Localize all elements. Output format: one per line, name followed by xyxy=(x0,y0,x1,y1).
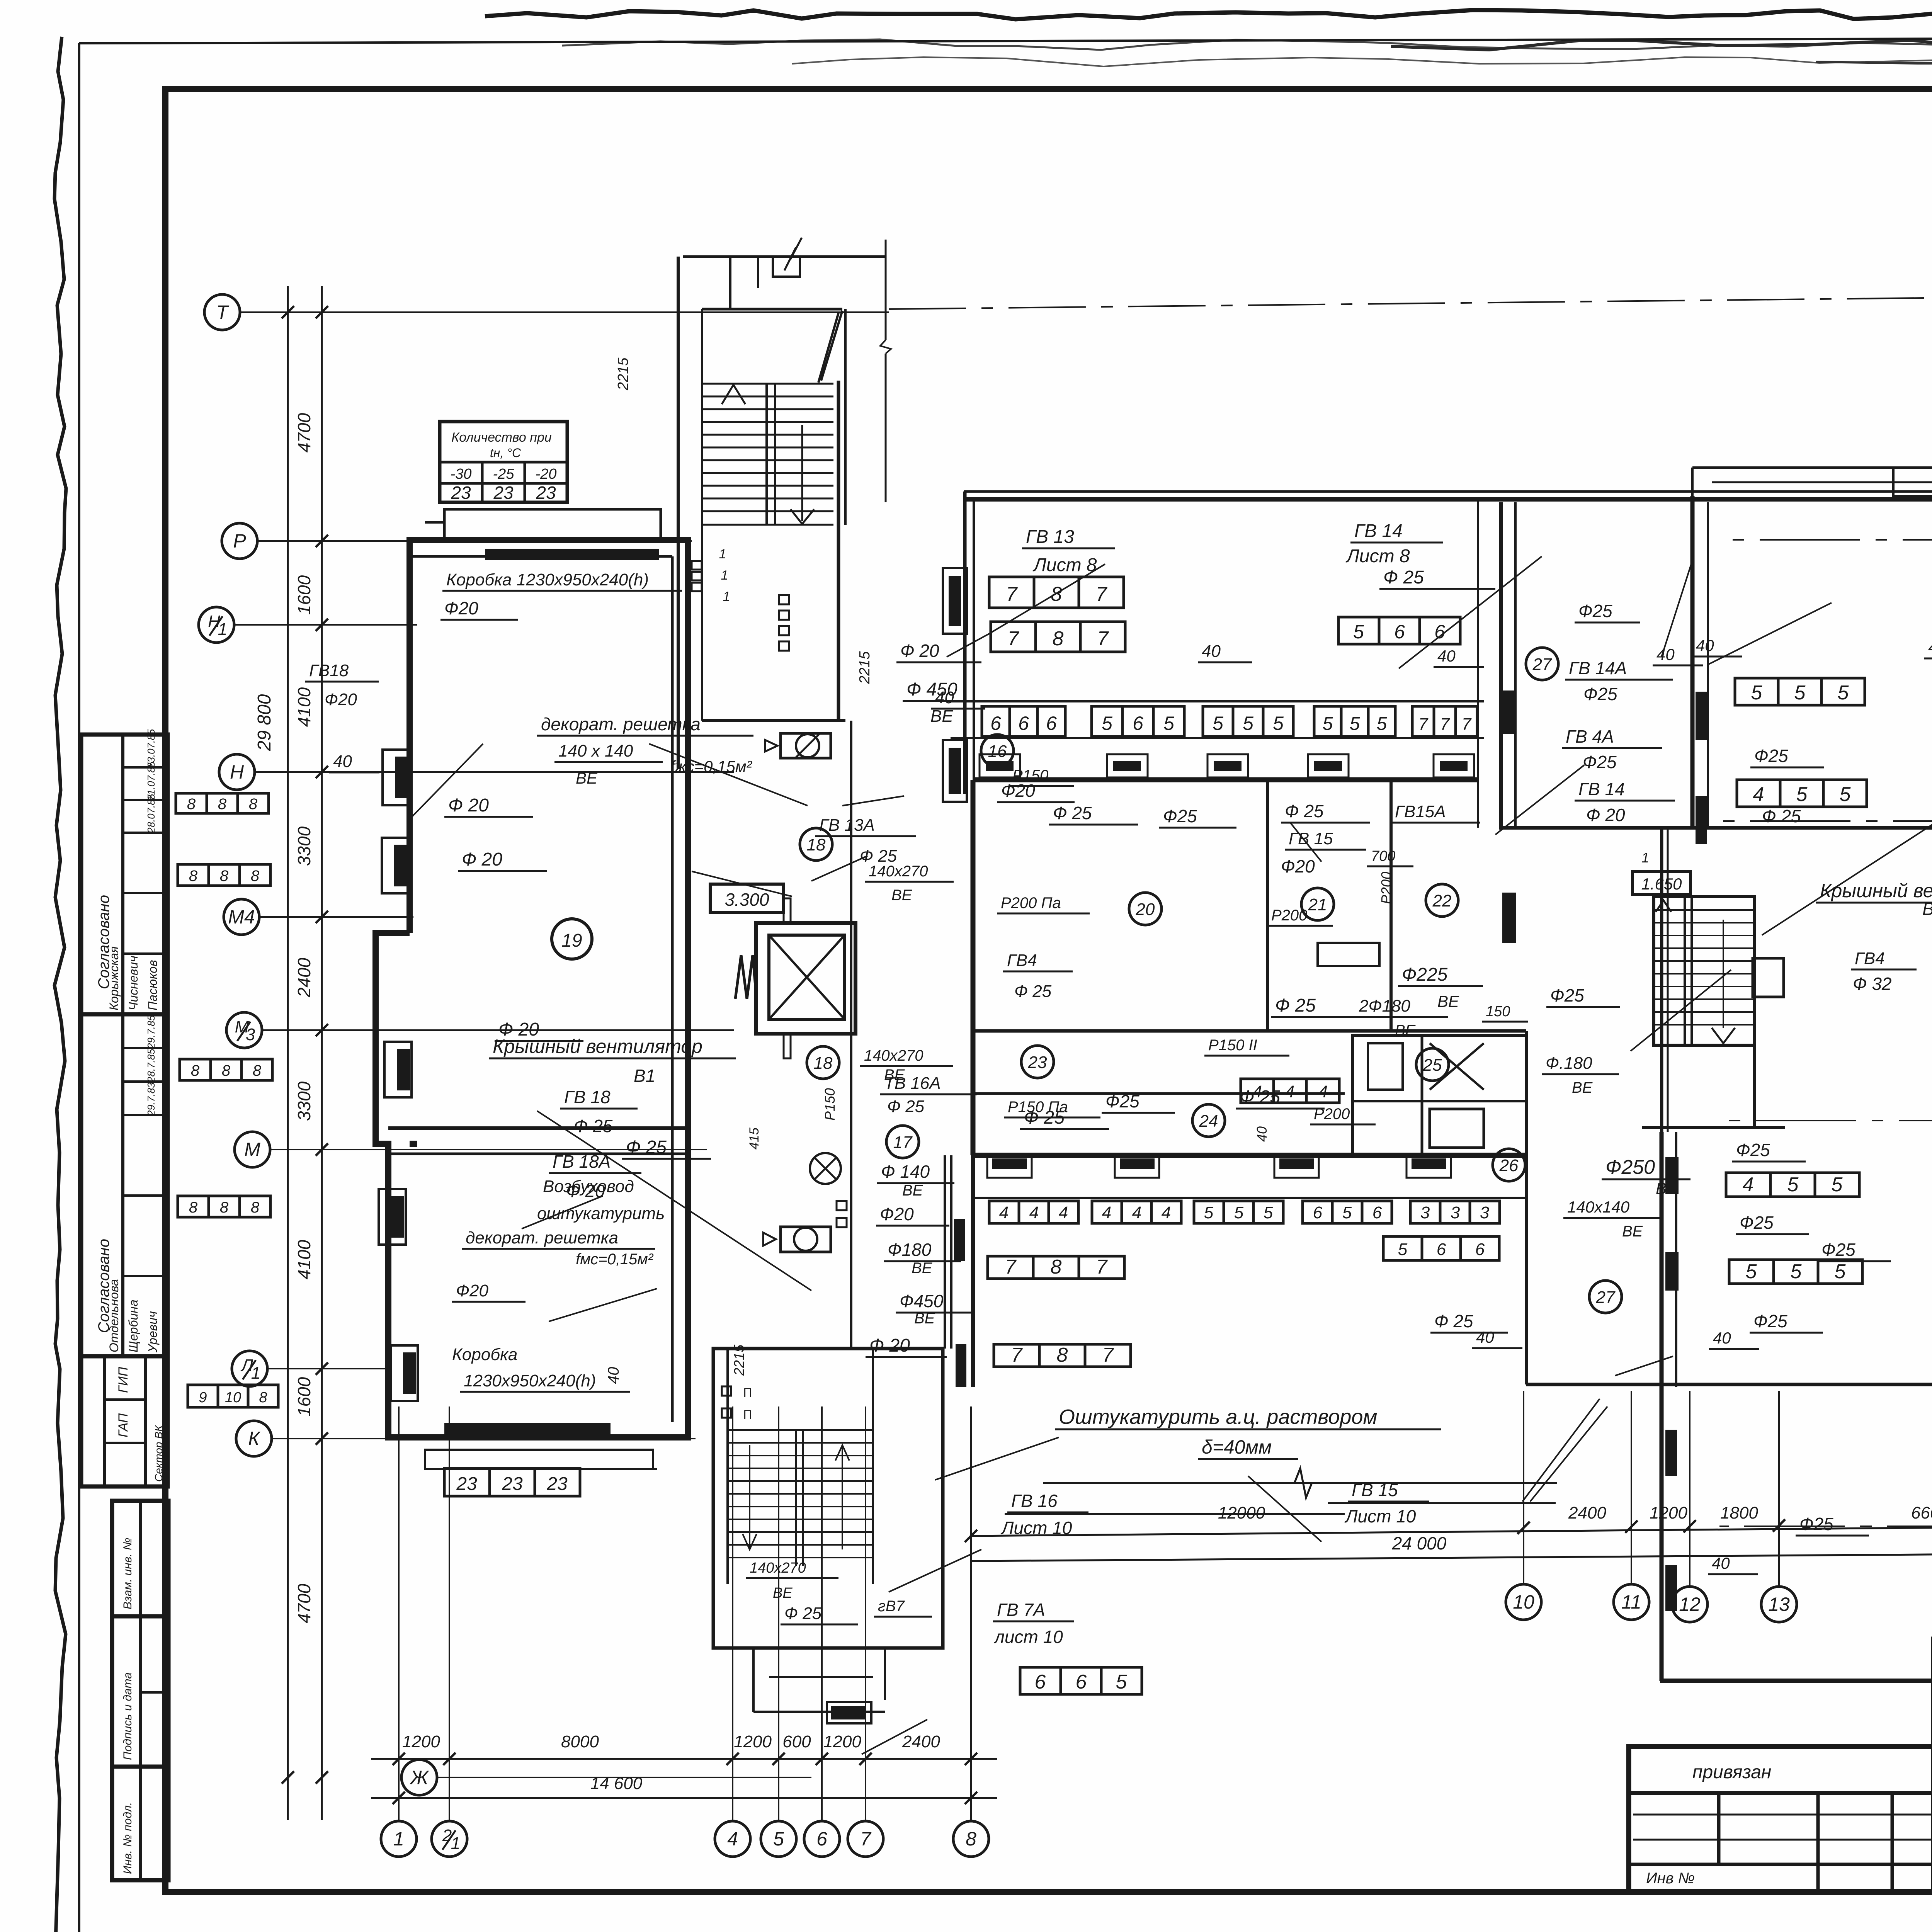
right wing left wall xyxy=(1690,496,1695,828)
svg-text:Ф25: Ф25 xyxy=(1578,601,1612,621)
room 19 circle xyxy=(552,919,592,959)
axis 2/1 xyxy=(432,1821,467,1857)
svg-text:8: 8 xyxy=(966,1828,976,1850)
svg-text:6: 6 xyxy=(1046,713,1057,734)
torn paper edge top xyxy=(485,10,1932,19)
room circle 23 xyxy=(1021,1046,1054,1078)
svg-text:3: 3 xyxy=(1480,1203,1490,1222)
svg-text:8: 8 xyxy=(253,1062,262,1079)
left dimension chain xyxy=(321,286,323,1820)
elevator zigzag xyxy=(735,955,757,999)
upper stair entry xyxy=(729,257,731,309)
svg-text:Р: Р xyxy=(233,530,246,552)
number box 7 8 7 xyxy=(989,577,1124,608)
svg-text:5: 5 xyxy=(1163,713,1174,734)
svg-text:18: 18 xyxy=(814,1054,833,1073)
axis line 1 vertical xyxy=(398,1406,400,1821)
middle band left wall xyxy=(963,492,967,794)
svg-text:ГВ 13А: ГВ 13А xyxy=(819,816,875,835)
right wing interior wall 2940 xyxy=(1642,1126,1785,1129)
svg-text:К: К xyxy=(248,1428,260,1449)
svg-text:4: 4 xyxy=(1743,1173,1754,1196)
svg-text:23: 23 xyxy=(536,483,556,503)
svg-text:Ф 25: Ф 25 xyxy=(1434,1311,1473,1331)
svg-text:23: 23 xyxy=(1028,1053,1047,1072)
svg-text:Сектор ВК: Сектор ВК xyxy=(153,1425,165,1482)
svg-text:Р150 II: Р150 II xyxy=(1208,1037,1257,1054)
svg-text:8: 8 xyxy=(1053,628,1064,650)
svg-text:5: 5 xyxy=(1273,713,1284,734)
number box 3 3 3 xyxy=(1410,1201,1500,1223)
svg-text:ГВ 14: ГВ 14 xyxy=(1578,779,1625,799)
number box 5 5 5 xyxy=(1729,1260,1862,1284)
number box 8 8 8 xyxy=(176,793,269,813)
duct symbol with arrow xyxy=(781,1227,831,1252)
svg-text:7: 7 xyxy=(1097,628,1109,650)
svg-text:Пасюков: Пасюков xyxy=(146,960,160,1010)
svg-text:8: 8 xyxy=(189,867,198,884)
svg-text:3: 3 xyxy=(1451,1203,1460,1222)
upper stairwell shaft xyxy=(677,257,680,769)
svg-text:4: 4 xyxy=(1753,783,1764,806)
svg-text:П: П xyxy=(743,1408,752,1422)
svg-text:5: 5 xyxy=(1264,1203,1273,1222)
number box 5 6 6 xyxy=(1383,1236,1499,1260)
svg-text:Коробка 1230х950х240(h): Коробка 1230х950х240(h) xyxy=(446,570,649,589)
GV15 long line xyxy=(1328,1502,1556,1504)
svg-text:27: 27 xyxy=(1532,655,1552,674)
svg-text:140х270: 140х270 xyxy=(869,863,928,880)
svg-text:23: 23 xyxy=(493,483,514,503)
svg-text:Ф25: Ф25 xyxy=(1799,1514,1833,1534)
svg-text:6: 6 xyxy=(1475,1240,1485,1259)
axis line 11 vertical xyxy=(1631,1391,1632,1584)
axis line М/3 xyxy=(262,1029,734,1031)
rooms 20-22 window piers xyxy=(980,754,1020,777)
leader lines xyxy=(989,564,1105,634)
svg-text:ГВ18: ГВ18 xyxy=(309,661,349,680)
svg-text:ВЕ: ВЕ xyxy=(930,707,953,726)
svg-text:6: 6 xyxy=(1313,1203,1323,1222)
svg-text:150: 150 xyxy=(1486,1003,1510,1020)
duct circle symbol 17 xyxy=(810,1153,841,1184)
svg-text:декорат. решетка: декорат. решетка xyxy=(541,714,701,734)
duct squares column A xyxy=(692,561,702,570)
room circle 18 xyxy=(807,1046,839,1079)
svg-text:ВЕ: ВЕ xyxy=(576,769,598,787)
svg-text:В2: В2 xyxy=(1922,899,1932,919)
svg-text:5: 5 xyxy=(1377,714,1387,734)
svg-text:оштукатурить: оштукатурить xyxy=(537,1204,665,1223)
svg-text:Ф 20: Ф 20 xyxy=(462,849,502,870)
right wing top outer wall xyxy=(1499,490,1932,493)
svg-text:1: 1 xyxy=(1641,850,1649,866)
stair roof line xyxy=(683,255,885,258)
svg-text:10: 10 xyxy=(225,1389,241,1406)
svg-text:5: 5 xyxy=(1353,621,1364,643)
svg-text:ГВ4: ГВ4 xyxy=(1007,951,1037,970)
bottom-left dimension chain xyxy=(371,1758,997,1760)
axis line Л/1 xyxy=(267,1368,390,1369)
axis line Л xyxy=(1719,1526,1932,1527)
axis line 5 vertical xyxy=(778,1406,779,1821)
svg-text:Ф 25: Ф 25 xyxy=(1275,995,1316,1016)
svg-text:Отдельнова: Отдельнова xyxy=(107,1279,121,1352)
svg-text:Р150: Р150 xyxy=(822,1088,838,1121)
svg-text:1230х950х240(h): 1230х950х240(h) xyxy=(464,1371,596,1390)
svg-text:18: 18 xyxy=(807,835,826,854)
svg-text:20: 20 xyxy=(1136,900,1155,919)
axis М4 xyxy=(224,899,259,935)
hall 27 left double wall xyxy=(1477,499,1479,828)
right wing interior wall 3583 xyxy=(1526,1383,1932,1386)
svg-text:7: 7 xyxy=(1011,1344,1023,1366)
svg-text:6: 6 xyxy=(1372,1203,1382,1222)
svg-text:1200: 1200 xyxy=(823,1732,861,1751)
corridor walls xyxy=(951,700,1484,702)
axis line П xyxy=(1719,539,1932,541)
axis line 7 vertical xyxy=(865,1406,866,1821)
svg-text:ВЕ: ВЕ xyxy=(1395,1022,1416,1039)
svg-text:8: 8 xyxy=(220,1199,229,1216)
svg-text:Ф 25: Ф 25 xyxy=(887,1097,925,1116)
svg-text:Ф 25: Ф 25 xyxy=(574,1116,613,1136)
number box 5 5 5 xyxy=(1203,706,1293,736)
thin margin border xyxy=(78,43,80,1932)
svg-text:7: 7 xyxy=(1440,715,1450,734)
left building radiator top xyxy=(485,549,659,560)
svg-text:ВЕ: ВЕ xyxy=(773,1585,793,1601)
svg-text:Ф25: Ф25 xyxy=(1583,752,1617,772)
svg-text:Чисневич: Чисневич xyxy=(126,956,140,1010)
svg-text:ТВ 16А: ТВ 16А xyxy=(884,1074,941,1093)
svg-text:8: 8 xyxy=(251,867,260,884)
upper stair treads xyxy=(702,383,833,385)
svg-text:Ф 20: Ф 20 xyxy=(869,1335,910,1356)
svg-text:13: 13 xyxy=(1768,1594,1790,1615)
number box 6 6 6 xyxy=(982,706,1065,736)
svg-text:Ф.180: Ф.180 xyxy=(1546,1054,1592,1073)
svg-text:6: 6 xyxy=(990,713,1001,734)
svg-text:40: 40 xyxy=(333,752,352,771)
small duct boxes lower xyxy=(837,1201,847,1210)
svg-text:Ф25: Ф25 xyxy=(1754,746,1788,766)
rooms 20-22 top wall xyxy=(973,777,1478,782)
svg-text:Ф25: Ф25 xyxy=(1105,1091,1139,1111)
level mark 3.300 xyxy=(710,884,784,913)
svg-text:7: 7 xyxy=(1102,1344,1114,1366)
GV16 long line xyxy=(1005,1513,1345,1515)
axis 12 xyxy=(1672,1587,1708,1622)
svg-text:1600: 1600 xyxy=(294,1377,314,1417)
room 22 interior marks xyxy=(1318,943,1379,966)
svg-text:привязан: привязан xyxy=(1692,1762,1771,1782)
duct shaft wall x2452 xyxy=(944,1155,946,1349)
svg-text:5: 5 xyxy=(1791,1260,1802,1283)
svg-text:Ф450: Ф450 xyxy=(900,1291,944,1311)
svg-text:140х140: 140х140 xyxy=(1567,1198,1630,1216)
svg-text:Ф 25: Ф 25 xyxy=(1762,806,1801,826)
room circle 16 xyxy=(981,735,1014,767)
svg-text:26: 26 xyxy=(1499,1156,1519,1175)
svg-text:ГВ 15: ГВ 15 xyxy=(1289,829,1333,848)
svg-text:7: 7 xyxy=(1418,715,1429,734)
svg-text:Ф 20: Ф 20 xyxy=(448,795,489,816)
number box 8 8 8 xyxy=(178,864,270,886)
svg-text:Крышный вентилятор: Крышный вентилятор xyxy=(1820,880,1932,901)
svg-text:1600: 1600 xyxy=(294,575,314,615)
middle building right wall extension xyxy=(1525,1031,1528,1384)
number box 5 6 5 xyxy=(1092,706,1184,736)
svg-text:5: 5 xyxy=(1746,1260,1757,1283)
hall wall between 2142 and 2930 xyxy=(1661,828,1663,1132)
svg-text:40: 40 xyxy=(1437,647,1456,665)
svg-text:23: 23 xyxy=(502,1474,523,1494)
svg-text:ГВ 16: ГВ 16 xyxy=(1011,1491,1058,1511)
svg-text:ГВ15А: ГВ15А xyxy=(1395,802,1446,821)
rooms bottom wall / corridor 23 top xyxy=(973,1029,1526,1033)
svg-text:7: 7 xyxy=(1006,583,1018,605)
svg-text:2215: 2215 xyxy=(857,651,873,684)
svg-text:40: 40 xyxy=(1712,1554,1730,1572)
corridor shaft walls down xyxy=(850,721,852,1349)
kolichestvo table xyxy=(440,422,567,502)
middle porch bottom lines xyxy=(974,1197,1526,1199)
svg-text:Уревич: Уревич xyxy=(146,1311,160,1353)
scan shadow lines top xyxy=(562,39,1932,50)
svg-text:ВЕ: ВЕ xyxy=(912,1260,933,1277)
svg-text:24: 24 xyxy=(1199,1112,1218,1131)
svg-text:29 800: 29 800 xyxy=(254,694,275,751)
svg-text:23: 23 xyxy=(451,483,471,503)
svg-text:7: 7 xyxy=(1462,715,1472,734)
axis line Н xyxy=(255,771,734,773)
elevator shaft xyxy=(756,923,855,1034)
svg-text:140 х 140: 140 х 140 xyxy=(558,742,633,760)
upper stair arrow down xyxy=(801,425,803,521)
lower stair entrance steps xyxy=(752,1648,755,1712)
svg-text:Ф 25: Ф 25 xyxy=(1240,1087,1280,1107)
svg-text:7: 7 xyxy=(1008,628,1020,650)
svg-text:Ф 20: Ф 20 xyxy=(900,641,939,661)
privyazan block xyxy=(1629,1747,1932,1892)
axis Т xyxy=(204,294,240,330)
WC block rooms 25 26 xyxy=(1352,1036,1526,1155)
svg-text:1200: 1200 xyxy=(402,1732,440,1751)
axis К xyxy=(236,1421,272,1456)
number box 6 6 5 xyxy=(1020,1667,1142,1694)
axis line М4 xyxy=(259,916,413,918)
svg-text:Лист 8: Лист 8 xyxy=(1032,555,1097,575)
svg-text:16: 16 xyxy=(988,742,1007,761)
svg-text:5: 5 xyxy=(1751,682,1763,704)
svg-text:4: 4 xyxy=(1285,1082,1294,1101)
right stair wall xyxy=(1753,896,1756,1128)
svg-text:Ф 25: Ф 25 xyxy=(1024,1107,1065,1128)
axis line 12 vertical xyxy=(1689,1391,1690,1587)
svg-text:14 600: 14 600 xyxy=(590,1774,643,1793)
svg-text:40: 40 xyxy=(1656,645,1675,663)
stamp strip Vzam inv xyxy=(112,1501,168,1616)
GV7 fixture xyxy=(831,1706,866,1719)
svg-text:ГВ 7А: ГВ 7А xyxy=(997,1600,1045,1620)
upper stair chevron up xyxy=(722,385,745,404)
svg-text:лист 10: лист 10 xyxy=(993,1627,1063,1647)
svg-text:Ф 450: Ф 450 xyxy=(906,679,957,700)
svg-text:ГВ 18: ГВ 18 xyxy=(564,1087,611,1107)
left building interior wall xyxy=(388,1126,688,1130)
svg-text:6: 6 xyxy=(1076,1671,1087,1693)
duct shaft radiators xyxy=(954,1219,965,1261)
duct circle symbol phi450 xyxy=(781,733,831,758)
svg-text:7: 7 xyxy=(1096,583,1108,605)
number box 4 5 5 xyxy=(1737,780,1867,807)
svg-text:23: 23 xyxy=(456,1474,477,1494)
svg-text:4: 4 xyxy=(1318,1082,1328,1101)
svg-text:22: 22 xyxy=(1432,891,1452,910)
axis line М/1 xyxy=(1719,1120,1932,1121)
svg-text:Ф 140: Ф 140 xyxy=(881,1162,930,1182)
middle bottom window piers xyxy=(987,1156,1032,1178)
svg-text:5: 5 xyxy=(1102,713,1112,734)
svg-text:5: 5 xyxy=(1838,682,1849,704)
room circle 17 xyxy=(886,1126,919,1158)
svg-text:2215: 2215 xyxy=(615,357,631,391)
svg-text:Ф20: Ф20 xyxy=(880,1204,914,1224)
svg-text:Ф 25: Ф 25 xyxy=(1383,567,1424,588)
svg-text:Возбуховод: Возбуховод xyxy=(543,1177,634,1196)
svg-text:8: 8 xyxy=(1057,1344,1068,1366)
svg-text:Коробка: Коробка xyxy=(452,1345,517,1364)
svg-text:415: 415 xyxy=(747,1128,762,1150)
svg-text:5: 5 xyxy=(1794,682,1806,704)
svg-text:-20: -20 xyxy=(536,466,557,482)
wall between room 21 and 22 xyxy=(1389,780,1393,1031)
axis line 13 vertical xyxy=(1778,1391,1780,1587)
axis 7 xyxy=(848,1821,883,1857)
svg-text:Ф20: Ф20 xyxy=(444,598,478,618)
svg-text:Н: Н xyxy=(230,761,244,783)
svg-text:6: 6 xyxy=(1394,621,1405,643)
svg-text:8: 8 xyxy=(187,796,196,813)
svg-text:гВ7: гВ7 xyxy=(878,1598,905,1615)
wall between room 20 and 21 xyxy=(1266,780,1269,1031)
left building porch top xyxy=(444,509,661,540)
svg-text:ВЕ: ВЕ xyxy=(1572,1079,1593,1096)
svg-text:4100: 4100 xyxy=(294,1240,314,1279)
middle band radiators left wall xyxy=(949,576,961,626)
svg-text:tн, °С: tн, °С xyxy=(490,446,521,460)
svg-text:40: 40 xyxy=(1254,1126,1270,1142)
svg-text:М4: М4 xyxy=(228,906,255,928)
svg-text:4: 4 xyxy=(1102,1203,1111,1222)
svg-text:декорат. решетка: декорат. решетка xyxy=(466,1228,618,1247)
svg-text:4100: 4100 xyxy=(294,687,314,727)
svg-text:11: 11 xyxy=(1621,1591,1641,1613)
svg-text:3.300: 3.300 xyxy=(724,889,769,910)
svg-text:140х270: 140х270 xyxy=(864,1047,923,1064)
svg-text:6: 6 xyxy=(1035,1671,1046,1693)
svg-text:4: 4 xyxy=(1132,1203,1141,1222)
svg-text:Ф 20: Ф 20 xyxy=(1586,805,1625,825)
scan smear heavy right xyxy=(1391,39,1932,51)
svg-text:ВЕ: ВЕ xyxy=(891,887,913,904)
svg-text:ГВ 14: ГВ 14 xyxy=(1354,521,1403,541)
GV15 risers leaders xyxy=(1522,1399,1600,1502)
svg-text:40: 40 xyxy=(1713,1329,1731,1347)
svg-text:1200: 1200 xyxy=(734,1732,772,1751)
room circle 25 xyxy=(1416,1048,1449,1081)
middle building bottom wall xyxy=(973,1153,1526,1158)
svg-text:1800: 1800 xyxy=(1720,1503,1758,1522)
left building porch bottom xyxy=(425,1450,653,1469)
left building inner wall lines xyxy=(376,930,410,936)
svg-text:Инв №: Инв № xyxy=(1646,1870,1695,1887)
svg-text:Р200 Па: Р200 Па xyxy=(1001,895,1061,912)
svg-text:6600: 6600 xyxy=(1911,1503,1932,1522)
svg-text:Ф 32: Ф 32 xyxy=(1853,974,1892,994)
svg-text:25: 25 xyxy=(1423,1056,1442,1075)
left building outer walls xyxy=(376,540,688,1437)
number box 8 8 8 xyxy=(178,1196,270,1217)
svg-text:6: 6 xyxy=(816,1828,827,1850)
room circle 27 xyxy=(1589,1281,1622,1313)
svg-text:ВЕ: ВЕ xyxy=(1656,1179,1678,1197)
svg-text:4700: 4700 xyxy=(294,1583,314,1623)
room circle 20 xyxy=(1129,893,1162,925)
svg-text:5: 5 xyxy=(1840,783,1851,806)
axis line 2/1 vertical xyxy=(449,1406,450,1821)
axis Н xyxy=(219,754,255,790)
elevator door stub top xyxy=(784,898,791,922)
axis М/3 xyxy=(226,1012,262,1048)
axis Л/1 xyxy=(232,1351,267,1386)
svg-text:ГАП: ГАП xyxy=(116,1413,131,1437)
svg-text:Корыжская: Корыжская xyxy=(107,946,121,1010)
svg-text:-30: -30 xyxy=(451,466,472,482)
svg-text:ГВ 18А: ГВ 18А xyxy=(553,1151,611,1172)
svg-text:8: 8 xyxy=(218,796,227,813)
svg-text:Ф 25: Ф 25 xyxy=(784,1604,822,1623)
svg-text:8: 8 xyxy=(189,1199,198,1216)
svg-text:ГВ 4А: ГВ 4А xyxy=(1566,726,1614,747)
axis line Т xyxy=(240,311,889,313)
svg-text:Лист 8: Лист 8 xyxy=(1345,546,1410,566)
axis line Р xyxy=(257,540,692,542)
svg-text:Ф180: Ф180 xyxy=(888,1240,932,1260)
number box 5 6 6 xyxy=(1338,617,1460,644)
number box 7 8 7 xyxy=(991,622,1125,652)
svg-text:Ф25: Ф25 xyxy=(1736,1140,1770,1160)
svg-text:2Ф180: 2Ф180 xyxy=(1359,997,1410,1015)
right wing bottom wall xyxy=(1660,1679,1932,1683)
svg-text:4: 4 xyxy=(999,1203,1009,1222)
svg-text:7: 7 xyxy=(1005,1256,1017,1278)
axis Н/1 xyxy=(199,607,234,643)
right wing interior wall 2142 xyxy=(1499,826,1932,830)
axis Ж xyxy=(401,1760,437,1795)
svg-text:5: 5 xyxy=(1832,1173,1843,1196)
svg-text:5: 5 xyxy=(1350,714,1360,734)
axis line Ж xyxy=(437,1777,811,1778)
svg-text:3300: 3300 xyxy=(294,826,314,866)
svg-text:ГИП: ГИП xyxy=(116,1367,131,1393)
svg-text:-25: -25 xyxy=(493,466,515,482)
svg-text:1.650: 1.650 xyxy=(1641,875,1682,893)
room circle 21 xyxy=(1301,888,1334,920)
svg-text:1: 1 xyxy=(393,1828,404,1850)
svg-text:600: 600 xyxy=(782,1732,811,1751)
